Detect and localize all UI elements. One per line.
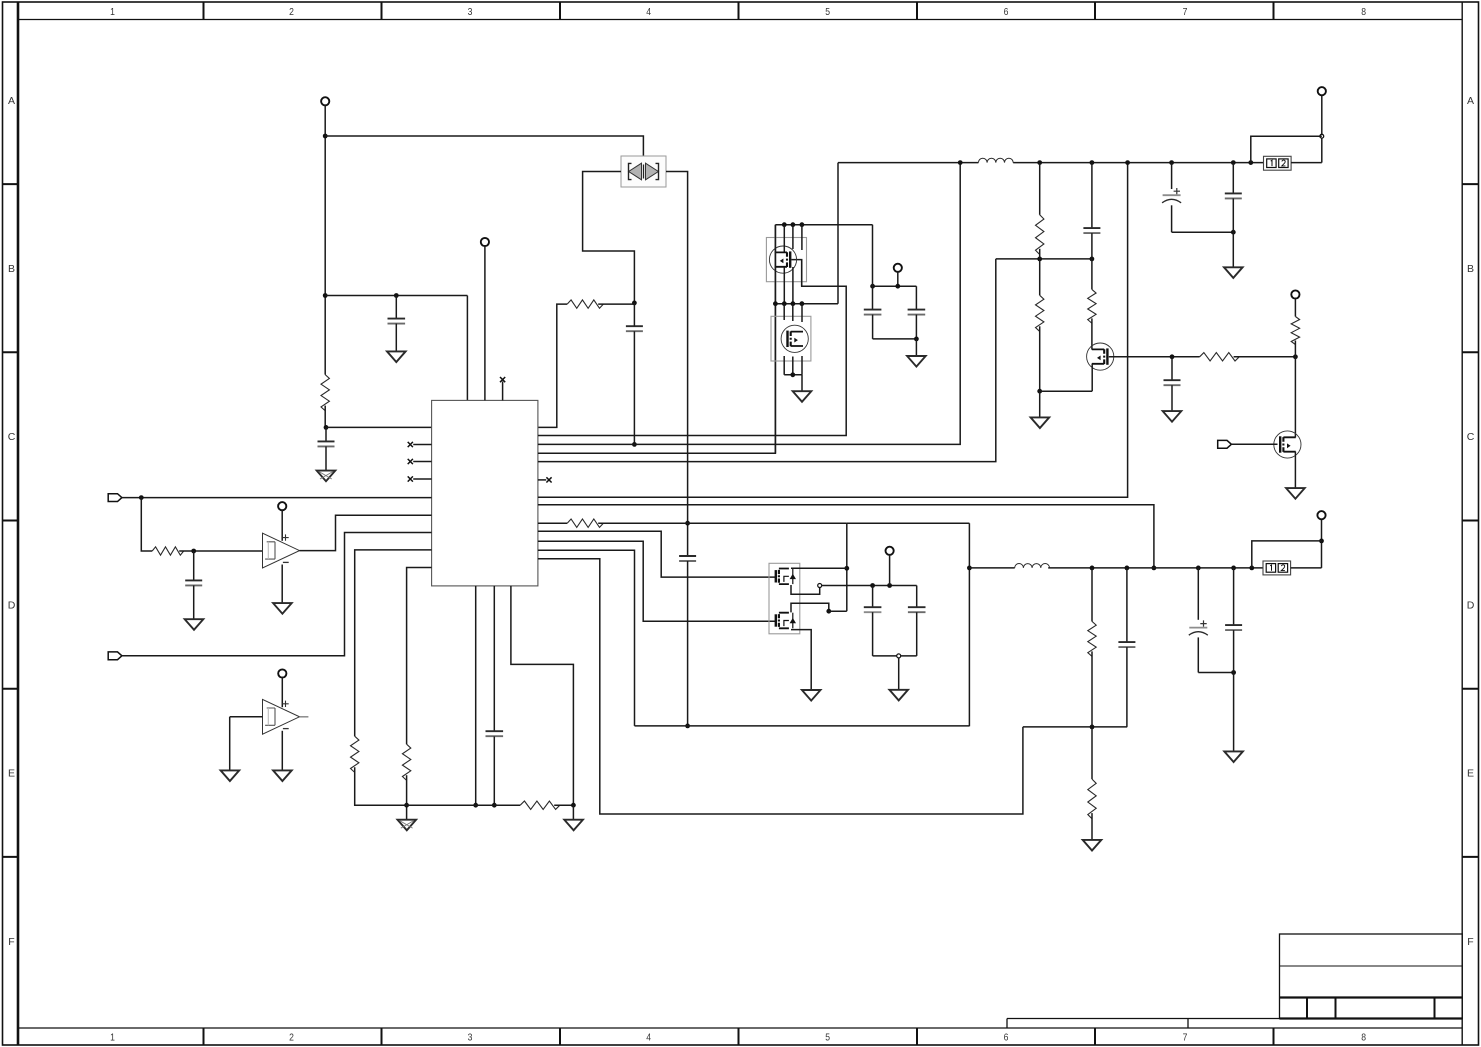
wire bottom return rail xyxy=(635,725,970,727)
wire U1 bottom pin3 jog down xyxy=(511,586,574,805)
wire C6 down xyxy=(493,736,495,805)
frame row letters right xyxy=(1467,95,1475,948)
wire JP2 to terminal xyxy=(1321,518,1323,568)
MOSFET Q2 symbol xyxy=(781,325,808,352)
junction P1/branch to D1 xyxy=(323,134,328,139)
wire U2 output to U1 pin xyxy=(300,515,432,550)
ground for bottom rail xyxy=(564,820,583,831)
ground for C11 C12 xyxy=(1224,267,1243,278)
wire bottom rail left xyxy=(406,804,521,806)
ground for U3 input xyxy=(221,770,240,781)
dual MOSFET package Q2 (lower) xyxy=(771,316,811,361)
wire down to R3 xyxy=(141,498,152,551)
wire U3 plus input xyxy=(230,716,263,718)
wire Q5-A source jog xyxy=(791,585,820,594)
pin wire Q1 b lower xyxy=(792,267,794,304)
wire R14 to ground xyxy=(1091,813,1093,840)
resistor R9 xyxy=(1035,295,1043,331)
wire sense2 to output rail xyxy=(538,505,1154,568)
svg-text:2: 2 xyxy=(289,1032,294,1044)
wire gate line through packages xyxy=(774,225,776,454)
terminal P3 (comparator U2 supply) xyxy=(278,502,286,510)
resistor R7 xyxy=(567,519,603,527)
junction cap bottom xyxy=(914,337,919,342)
wire block right edge xyxy=(968,523,970,726)
no-connect marker xyxy=(408,442,413,447)
wire R5 to ground xyxy=(406,775,408,819)
ground for Q5-B source xyxy=(802,690,821,701)
pin wire Q1 a upper xyxy=(783,225,785,252)
junction Q5 drain/left edge xyxy=(844,566,849,571)
wire Q5-B source down xyxy=(791,630,811,690)
svg-text:6: 6 xyxy=(1004,6,1009,18)
junction C6/net xyxy=(492,803,497,808)
wire JP1 pin2 out xyxy=(1291,162,1322,164)
wire C11 down xyxy=(1171,205,1173,232)
svg-text:F: F xyxy=(8,936,14,948)
gate/drain bus top xyxy=(775,224,872,226)
stub U1 top pin3 (NC) xyxy=(502,381,504,400)
wire to R14 xyxy=(1091,727,1093,779)
wire pgnd riser xyxy=(538,550,635,726)
wire bus drop to C7 xyxy=(872,225,874,310)
wire P5 down xyxy=(897,271,899,286)
junction lower rail xyxy=(1231,566,1236,571)
pin wire Q2 a upper xyxy=(783,304,785,320)
wire U2 minus to ground xyxy=(281,565,283,603)
wire to C8 xyxy=(915,286,917,309)
wire Q5-A drain to left edge xyxy=(791,567,847,569)
wire C11 to C12 node xyxy=(1172,231,1234,233)
resistor R1 xyxy=(321,375,329,411)
wire block left edge xyxy=(846,523,848,611)
wire C16 down xyxy=(1197,637,1199,672)
wire sense return path xyxy=(538,559,1023,814)
junction lower rail xyxy=(1249,566,1254,571)
svg-text:D: D xyxy=(1467,599,1475,611)
svg-text:7: 7 xyxy=(1183,1032,1188,1044)
wire C10 to ground xyxy=(1171,385,1173,411)
terminal P7 (output port) xyxy=(1318,87,1326,95)
junction JP2 loop xyxy=(1319,539,1324,544)
wire C9 to R10 xyxy=(1091,233,1093,289)
junction at VIN branch xyxy=(323,293,328,298)
MOSFET Q1 symbol xyxy=(769,246,796,273)
junction D1-left/R2 xyxy=(632,301,637,306)
junction IN1/R3 xyxy=(139,495,144,500)
wire C4 down to bottom rail xyxy=(687,561,689,726)
wire from P1 to TVS D1 center xyxy=(325,136,643,165)
wire R2 to junction xyxy=(598,303,634,305)
wire Q1 drain to switch node xyxy=(802,285,847,287)
wire U1 bottom pin1 down xyxy=(475,586,477,805)
svg-text:8: 8 xyxy=(1361,1032,1366,1044)
ground for C13 C14 xyxy=(889,690,908,701)
resistor R13 xyxy=(1088,621,1096,656)
ground for C16 C17 xyxy=(1224,751,1243,762)
junction FB/R8 divider xyxy=(1037,257,1042,262)
terminal P2 (VCC port) xyxy=(481,238,489,246)
junction JP1 loop (open) xyxy=(1320,134,1324,138)
capacitor C7 xyxy=(864,310,882,315)
wire down into U1 pin (top1) xyxy=(466,296,468,401)
svg-text:D: D xyxy=(8,599,16,611)
ground for C10 xyxy=(1163,411,1182,422)
junction top rail xyxy=(1090,160,1095,165)
junction pin bus top xyxy=(782,222,787,227)
wire C5 to ground xyxy=(193,585,195,619)
input tag IN3 xyxy=(1218,440,1232,448)
svg-text:A: A xyxy=(8,95,15,107)
junction under Q2 xyxy=(790,372,795,377)
junction pin bus mid xyxy=(773,301,778,306)
pin wire Q2 c upper xyxy=(801,304,803,322)
junction lower rail xyxy=(1125,566,1130,571)
svg-text:A: A xyxy=(1467,95,1474,107)
terminal P8 (block port) xyxy=(886,547,894,555)
junction return/divider xyxy=(1090,725,1095,730)
wire Q5-B drain to left edge xyxy=(829,610,847,612)
wire U1 bottom pin2 to C6 xyxy=(493,586,495,731)
svg-text:1: 1 xyxy=(110,1032,115,1044)
wire Q1 drain jog down xyxy=(801,260,803,287)
stub U1 left NC pin xyxy=(413,461,431,463)
wire gate drive A to Q5 xyxy=(538,531,775,577)
wire P2 down to U1 top pin2 xyxy=(484,245,486,400)
capacitor C5 xyxy=(185,580,202,585)
wire cap bottom bus xyxy=(873,338,917,340)
junction block right/output rail xyxy=(967,566,972,571)
junction top rail xyxy=(1248,160,1253,165)
wire R13 down xyxy=(1091,651,1093,727)
svg-text:2: 2 xyxy=(289,6,294,18)
no-connect marker xyxy=(408,476,413,481)
wire R7 to lower block xyxy=(598,522,847,524)
wire C16 to C17 node xyxy=(1198,672,1233,674)
pin wire Q2 b lower xyxy=(792,357,794,375)
comparator U2 xyxy=(263,533,300,568)
capacitor C2 xyxy=(318,441,335,446)
stub U1 left NC pin xyxy=(413,478,431,480)
wire rail to C15 xyxy=(1126,568,1128,642)
wire C2 to ground xyxy=(325,446,327,470)
wire R6 to junction xyxy=(554,804,573,806)
wire C12 down xyxy=(1232,198,1234,267)
wire P8 down xyxy=(889,554,891,586)
dual MOSFET package Q1 (upper) xyxy=(766,238,806,282)
ground for R14 xyxy=(1083,840,1102,851)
wire Q4 source to ground xyxy=(1294,452,1296,488)
MOSFET Q3 xyxy=(1087,343,1114,370)
svg-text:F: F xyxy=(1467,936,1473,948)
connector JP1 xyxy=(1264,156,1292,170)
wire gate drive B to Q5 xyxy=(538,541,775,621)
wire sense1 to top rail xyxy=(538,163,1128,498)
svg-text:3: 3 xyxy=(468,1032,473,1044)
svg-text:5: 5 xyxy=(825,1032,830,1044)
wire U1 pin to R2 xyxy=(538,304,567,427)
wire rail to C16 xyxy=(1197,568,1199,620)
stub U1 left NC pin xyxy=(413,444,431,446)
wire to ground xyxy=(898,658,900,690)
capacitor C16 (electrolytic) xyxy=(1189,620,1208,635)
wire rail to R8 xyxy=(1039,163,1041,215)
terminal P6 (pull-up port) xyxy=(1291,290,1299,298)
wire caps bottom bus xyxy=(873,655,917,657)
resistor R11 xyxy=(1200,353,1240,361)
junction P5 xyxy=(895,284,900,289)
wire to C5 xyxy=(193,551,195,580)
wire Q3 drain out xyxy=(1109,356,1200,358)
wire cap top bus xyxy=(873,285,917,287)
junction pin bus top xyxy=(800,222,805,227)
wire mid node to caps xyxy=(822,585,917,587)
wire rail to C12 xyxy=(1232,163,1234,194)
wire LDRV riser to gate bus xyxy=(538,225,776,454)
junction sense2/output rail xyxy=(1152,566,1157,571)
MOSFET Q5-A xyxy=(776,569,796,585)
resistor R12 xyxy=(1291,317,1299,345)
ground for U3 minus input xyxy=(273,770,292,781)
resistor R5 xyxy=(402,744,410,780)
capacitor C14 xyxy=(908,607,926,612)
wire P6 to R12 xyxy=(1294,298,1296,317)
wire D1 left pin down-around xyxy=(583,172,635,303)
junction pin bus top xyxy=(791,222,796,227)
IC U1 main controller xyxy=(432,400,538,586)
no-connect marker xyxy=(408,459,413,464)
wire input stub to ground xyxy=(229,717,231,770)
svg-text:C: C xyxy=(1467,431,1475,443)
junction gate node xyxy=(1293,354,1298,359)
junction pin bus mid xyxy=(800,301,805,306)
wire HDRV to Q1 drain (switch node) xyxy=(538,260,846,436)
pin wire Q1 b upper xyxy=(792,225,794,249)
junction R6/gnd xyxy=(571,803,576,808)
wire rail to C17 xyxy=(1233,568,1235,625)
wire top rail right of L1 xyxy=(1013,162,1263,164)
junction C11/C12 xyxy=(1231,230,1236,235)
input tag IN2 xyxy=(108,652,122,660)
wire output rail right of L2 xyxy=(1048,567,1263,569)
svg-text:B: B xyxy=(8,263,15,275)
capacitor C8 xyxy=(908,310,926,315)
junction C3 on wire xyxy=(632,442,637,447)
capacitor C6 xyxy=(486,731,504,736)
wire JP1 loop back to rail xyxy=(1251,136,1322,162)
wire to C1 xyxy=(395,296,397,319)
junction Q5-B drain xyxy=(826,609,831,614)
wire C14 down xyxy=(916,612,918,656)
wire IN1 to U1 left pin xyxy=(122,497,432,499)
MOSFET Q4 xyxy=(1274,431,1301,458)
wire D1 right pin down xyxy=(666,172,688,557)
resistor R8 xyxy=(1035,215,1043,255)
svg-text:4: 4 xyxy=(646,1032,651,1044)
junction lower rail xyxy=(1196,566,1201,571)
wire block top edge xyxy=(847,522,970,524)
frame column numbers top xyxy=(110,6,1366,18)
junction R5/net xyxy=(404,803,409,808)
wire to C10 xyxy=(1171,357,1173,380)
ground for Q2 source xyxy=(793,391,812,402)
junction pin bus mid xyxy=(791,301,796,306)
resistor R2 xyxy=(567,300,603,308)
ground for Q4 xyxy=(1286,488,1305,499)
wire VIN to IC top pin xyxy=(325,295,467,297)
junction C10 xyxy=(1170,354,1175,359)
wire return to divider xyxy=(1023,726,1127,728)
no-connect marker U1 top pin3 xyxy=(500,377,505,382)
wire Q5-B drain jog xyxy=(791,603,829,612)
wire rail to C11 xyxy=(1171,163,1173,189)
wire to U1 left pin1 xyxy=(326,426,432,428)
frame column numbers bottom xyxy=(110,1032,1366,1044)
open junction caps bottom xyxy=(897,654,901,658)
junction C5 xyxy=(191,549,196,554)
terminal P1 (top-left supply port) xyxy=(321,97,329,105)
capacitor C3 xyxy=(626,326,643,331)
wire R11 to gate node xyxy=(1234,356,1296,358)
ground for U2 minus input xyxy=(273,603,292,614)
wire C7 down xyxy=(872,315,874,339)
wire C1 to ground xyxy=(395,324,397,352)
source bus mid xyxy=(775,303,838,305)
junction FB/R10 divider xyxy=(1090,257,1095,262)
svg-text:E: E xyxy=(1467,768,1474,780)
junction C7 xyxy=(870,284,875,289)
wire JP1 to terminal xyxy=(1321,94,1323,162)
svg-text:7: 7 xyxy=(1183,6,1188,18)
junction C13 xyxy=(870,583,875,588)
terminal P4 (comparator U3 supply) xyxy=(278,669,286,677)
wire C17 down xyxy=(1233,630,1235,751)
wire IN3 to Q4 gate xyxy=(1232,443,1278,445)
stub U1 right NC pin xyxy=(538,479,546,481)
pin wire Q2 a lower xyxy=(783,356,785,375)
junction top rail xyxy=(1125,160,1130,165)
wire BOOT to top rail xyxy=(538,163,960,445)
resistor R4 xyxy=(351,736,359,772)
capacitor C9 xyxy=(1083,228,1100,233)
junction C4/bottom rail xyxy=(685,724,690,729)
junction boot riser/top rail xyxy=(958,160,963,165)
wire U3 minus to ground xyxy=(281,731,283,770)
wire Q3 source down xyxy=(1091,364,1093,392)
junction C4/comp wire xyxy=(685,521,690,526)
wire C15 down xyxy=(1126,647,1128,727)
bus under Q2 xyxy=(784,374,802,376)
ground for divider xyxy=(1031,417,1050,428)
svg-text:3: 3 xyxy=(468,6,473,18)
wire U1 pin to R5 xyxy=(407,568,432,745)
junction bottom pin1 xyxy=(473,803,478,808)
wire C13 down xyxy=(872,612,874,656)
svg-text:4: 4 xyxy=(646,6,651,18)
svg-text:8: 8 xyxy=(1361,6,1366,18)
capacitor C15 xyxy=(1118,642,1135,647)
wire to ground xyxy=(572,805,574,819)
capacitor C1 xyxy=(388,319,406,324)
wire IN2 to U1 left pin xyxy=(122,533,432,656)
capacitor C10 xyxy=(1164,380,1181,385)
wire U1 pin to R4 xyxy=(355,550,432,736)
wire Q2 to ground xyxy=(801,375,803,391)
input tag IN1 xyxy=(108,494,122,502)
svg-text:6: 6 xyxy=(1004,1032,1009,1044)
wire JP2 pin2 out xyxy=(1291,567,1322,569)
ground for C1 xyxy=(387,351,406,362)
wire rail to R13 xyxy=(1091,568,1093,622)
junction R1/C2/U1 xyxy=(324,425,329,430)
svg-text:B: B xyxy=(1467,263,1474,275)
wire output rail to L2 xyxy=(969,567,1014,569)
no-connect marker right xyxy=(546,477,551,482)
resistor R6 xyxy=(520,801,560,809)
ground for C7 C8 xyxy=(907,356,926,367)
wire top rail left of L1 xyxy=(838,162,978,164)
wire R10 to Q3 xyxy=(1091,318,1093,349)
ground for R5 node (chassis) xyxy=(398,820,417,831)
junction P8 xyxy=(887,583,892,588)
wire junction to Q3 source xyxy=(1040,390,1093,392)
wire top rail drop to source bus xyxy=(837,163,839,304)
wire to ground xyxy=(915,339,917,356)
junction top rail xyxy=(1231,160,1236,165)
capacitor C13 xyxy=(864,607,882,612)
TVS dual diode D1 xyxy=(621,156,666,187)
resistor R10 xyxy=(1088,289,1096,323)
MOSFET Q5-B xyxy=(776,613,796,629)
wire to C13 xyxy=(872,586,874,608)
stub U3 output xyxy=(300,716,309,718)
wire R9 down xyxy=(1039,326,1041,391)
wire C8 down xyxy=(915,315,917,339)
wire FB horizontal xyxy=(996,258,1092,260)
connector JP2 xyxy=(1263,561,1291,575)
wire P3 to U2 power pin xyxy=(281,509,283,541)
open junction Q5 source xyxy=(818,584,822,588)
wire U1 pin to R7 xyxy=(538,522,567,524)
junction R9/Q3 source xyxy=(1037,389,1042,394)
junction lower rail xyxy=(1090,566,1095,571)
wire JP2 loop back to rail xyxy=(1252,541,1322,568)
wire junction to C3 xyxy=(633,303,635,326)
title block xyxy=(1007,934,1462,1028)
capacitor C4 xyxy=(679,556,696,561)
pin wire Q2 b upper xyxy=(792,304,794,321)
wire R4 to bottom node xyxy=(355,767,407,805)
junction top rail xyxy=(1037,160,1042,165)
ground for C5 xyxy=(185,619,204,630)
capacitor C17 xyxy=(1225,625,1242,630)
capacitor C11 (electrolytic) xyxy=(1162,188,1181,203)
resistor R3 xyxy=(152,547,183,555)
pin wire Q1 a lower xyxy=(783,268,785,304)
wire to C2 xyxy=(325,427,327,441)
pin wire Q2 c lower xyxy=(801,356,803,375)
wire to C14 xyxy=(916,586,918,608)
wire R12 to Q4 xyxy=(1294,341,1296,438)
terminal P9 (output port 2) xyxy=(1317,511,1325,519)
svg-text:1: 1 xyxy=(110,6,115,18)
wire to ground xyxy=(1039,391,1041,417)
wire FB riser xyxy=(538,259,996,462)
svg-text:5: 5 xyxy=(825,6,830,18)
inductor L2 xyxy=(1015,564,1050,568)
svg-text:C: C xyxy=(8,431,16,443)
wire R8 to R9 xyxy=(1039,249,1041,295)
